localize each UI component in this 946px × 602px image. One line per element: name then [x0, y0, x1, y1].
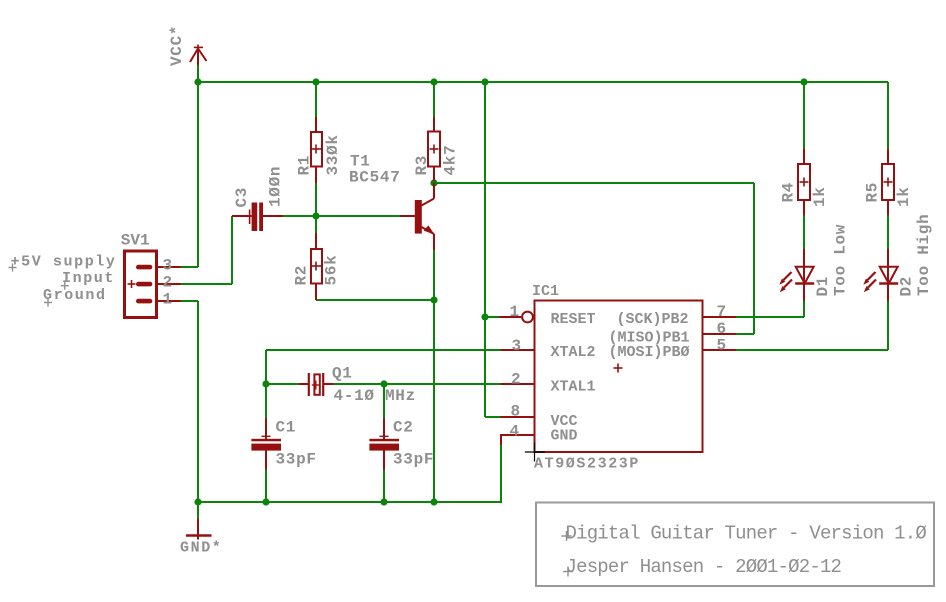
svg-text:XTAL2: XTAL2 — [551, 344, 596, 361]
svg-text:1k: 1k — [895, 186, 913, 207]
junction RESET node — [481, 313, 488, 320]
pin 2 XTAL1 lead — [501, 383, 535, 385]
svg-text:Q1: Q1 — [332, 365, 353, 383]
wire crystal right to XTAL1 — [334, 383, 501, 385]
svg-text:C1: C1 — [276, 419, 297, 437]
svg-text:4: 4 — [510, 423, 520, 441]
wire D2 bottom vertical — [887, 301, 889, 350]
wire PB1 vertical — [753, 183, 755, 334]
junction base node — [312, 212, 319, 219]
svg-text:33pF: 33pF — [393, 451, 434, 469]
svg-text:5: 5 — [717, 337, 727, 355]
junction top rail at R1 — [312, 78, 319, 85]
junction crystal left — [262, 380, 269, 387]
capacitor C1 — [251, 418, 281, 470]
IC origin cross — [525, 443, 545, 462]
wire C2 bottom — [383, 470, 385, 503]
wire R4 to D1 — [803, 216, 805, 250]
svg-text:3: 3 — [512, 337, 522, 355]
wire VCC column down to pin3 — [197, 82, 199, 267]
resistor R2 — [311, 233, 322, 300]
svg-text:GND: GND — [551, 428, 578, 445]
svg-text:R5: R5 — [864, 182, 882, 203]
svg-text:Too Low: Too Low — [832, 224, 850, 296]
LED D2 — [863, 249, 898, 301]
junction emitter R2 node — [430, 296, 437, 303]
wire VCC-IC drop — [484, 82, 486, 417]
junction bottom rail GND — [194, 498, 201, 505]
junction top rail at VCC — [194, 78, 201, 85]
svg-text:SV1: SV1 — [121, 232, 150, 250]
svg-text:33Øk: 33Øk — [324, 134, 342, 175]
svg-text:BC547: BC547 — [349, 169, 401, 187]
wire SV1 pin1 to GND column — [181, 300, 198, 302]
resistor R5 — [882, 149, 894, 216]
wire SV1 pin3 to VCC column — [181, 266, 198, 268]
wire R5 to D2 — [887, 216, 889, 250]
wire C1 bottom — [265, 470, 267, 503]
wire R5 top — [887, 82, 889, 149]
svg-text:R4: R4 — [780, 182, 798, 203]
IC U1 box — [535, 301, 703, 453]
wire SV1 pin2 to C3 — [181, 283, 232, 285]
svg-text:Jesper Hansen - 2ØØ1-Ø2-12: Jesper Hansen - 2ØØ1-Ø2-12 — [566, 556, 842, 578]
svg-text:+5V supply: +5V supply — [11, 254, 117, 271]
title box frame — [536, 503, 934, 587]
pin 6 lead — [703, 333, 737, 335]
transistor T1 — [400, 183, 435, 250]
junction crystal right — [380, 380, 387, 387]
svg-text:RESET: RESET — [551, 311, 596, 328]
svg-text:4-1Ø MHz: 4-1Ø MHz — [334, 387, 416, 405]
crystal Q1 — [299, 373, 334, 396]
wire emitter down — [433, 250, 435, 502]
junction collector node — [430, 179, 437, 186]
svg-text:Too High: Too High — [915, 214, 933, 296]
title origin cross 2 — [563, 567, 573, 577]
resistor R1 — [311, 117, 322, 183]
wire bottom rail — [198, 501, 502, 503]
wire pin5 to D2 — [736, 349, 888, 351]
wire XTAL2 vertical — [265, 350, 267, 384]
svg-text:C2: C2 — [393, 419, 414, 437]
IC value origin cross — [614, 364, 623, 373]
wire R3 top — [433, 82, 435, 117]
capacitor C3 — [232, 203, 283, 232]
pin 4 GND lead — [501, 434, 535, 436]
svg-text:D1: D1 — [814, 276, 832, 297]
svg-text:VCC*: VCC* — [168, 25, 186, 66]
resistor R3 — [428, 117, 440, 181]
pin 4 lead stub — [500, 434, 502, 445]
svg-text:Input: Input — [62, 270, 115, 287]
svg-text:(SCK)PB2: (SCK)PB2 — [617, 311, 689, 328]
wire XTAL2 horizontal — [266, 349, 501, 351]
wire R2 bottom corner — [316, 299, 434, 301]
svg-text:1ØØn: 1ØØn — [267, 166, 285, 207]
junction top rail at IC VCC drop — [481, 78, 488, 85]
pin 7 lead — [703, 316, 737, 318]
wire C3 left down — [231, 216, 233, 284]
svg-text:XTAL1: XTAL1 — [551, 379, 596, 396]
ground symbol GND — [186, 519, 212, 540]
svg-text:7: 7 — [717, 303, 727, 321]
junction top rail at R4 — [800, 78, 807, 85]
wire R4 top — [803, 82, 805, 149]
wire R1 top — [315, 82, 317, 117]
svg-text:56k: 56k — [323, 255, 341, 286]
wire R1 bottom to base node — [315, 183, 317, 216]
wire R2 top — [315, 216, 317, 233]
resistor R4 — [798, 149, 810, 216]
svg-text:33pF: 33pF — [276, 451, 317, 469]
wire C3 right to base node — [283, 215, 316, 217]
svg-text:1: 1 — [163, 291, 173, 309]
LED D1 — [779, 249, 814, 301]
svg-text:2: 2 — [163, 274, 173, 292]
pin 1 RESET lead and bubble — [499, 312, 533, 323]
wire C1 top — [265, 384, 267, 418]
svg-text:(MOSI)PBØ: (MOSI)PBØ — [609, 344, 690, 361]
svg-text:1: 1 — [510, 303, 520, 321]
svg-text:6: 6 — [717, 320, 727, 338]
wire pin4 GND vertical — [500, 445, 502, 502]
junction top rail at R3 — [430, 78, 437, 85]
supply symbol VCC — [190, 45, 207, 66]
junction bottom rail emitter — [430, 498, 437, 505]
pin 5 lead — [703, 349, 737, 351]
svg-text:IC1: IC1 — [532, 283, 559, 300]
capacitor C2 — [369, 418, 399, 470]
wire D1 bottom vertical — [803, 301, 805, 317]
svg-text:C3: C3 — [233, 187, 251, 208]
title origin cross 1 — [562, 531, 572, 541]
wire crystal left — [266, 383, 299, 385]
pin 3 XTAL2 lead — [501, 349, 535, 351]
wire PB1 horizontal to pin 6 — [736, 333, 754, 335]
connector SV1 — [125, 251, 182, 318]
svg-text:Digital Guitar Tuner - Version: Digital Guitar Tuner - Version 1.Ø — [566, 523, 927, 545]
svg-text:AT9ØS2323P: AT9ØS2323P — [534, 456, 640, 473]
svg-text:R2: R2 — [293, 265, 311, 286]
junction bottom rail C1 — [262, 498, 269, 505]
svg-text:D2: D2 — [898, 276, 916, 297]
wire C2 top — [383, 384, 385, 418]
wire collector line horizontal — [434, 182, 754, 184]
svg-text:1k: 1k — [811, 186, 829, 207]
svg-text:2: 2 — [511, 371, 521, 389]
wire VCC to pin8 — [485, 416, 501, 418]
wire GND symbol drop — [197, 502, 199, 519]
svg-text:Ground: Ground — [43, 287, 107, 304]
svg-text:GND*: GND* — [180, 540, 222, 557]
svg-text:8: 8 — [511, 403, 521, 421]
junction bottom rail C2 — [380, 498, 387, 505]
wire top rail — [197, 81, 888, 83]
svg-text:R1: R1 — [296, 155, 314, 176]
svg-text:R3: R3 — [413, 155, 431, 176]
pin 8 VCC lead — [501, 416, 535, 418]
wire RESET branch — [485, 316, 499, 318]
svg-text:4k7: 4k7 — [442, 145, 460, 176]
wire GND column down — [197, 301, 199, 502]
svg-text:3: 3 — [163, 257, 173, 275]
wire pin7 to D1 — [736, 316, 804, 318]
wire base line — [316, 215, 400, 217]
wire VCC drop to top rail — [197, 65, 199, 83]
